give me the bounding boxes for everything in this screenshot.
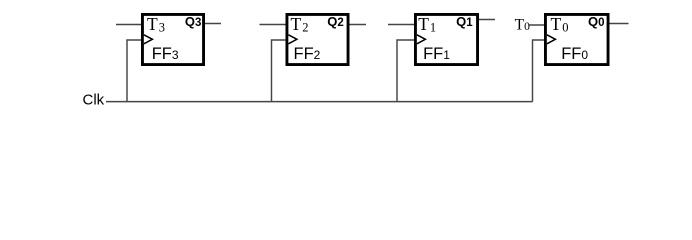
svg-text:Q2: Q2	[327, 14, 344, 29]
svg-text:FF3: FF3	[152, 45, 179, 63]
svg-text:Clk: Clk	[83, 92, 105, 109]
svg-text:FF0: FF0	[561, 45, 588, 63]
svg-text:FF2: FF2	[294, 45, 321, 63]
svg-text:Q0: Q0	[588, 14, 605, 29]
svg-text:FF1: FF1	[423, 45, 450, 63]
svg-text:Q3: Q3	[185, 14, 202, 29]
svg-text:Q1: Q1	[456, 14, 473, 29]
